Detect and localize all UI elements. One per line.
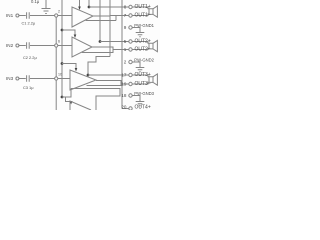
wire OUT1+	[89, 6, 129, 8]
svg-text:2: 2	[58, 10, 60, 14]
wire (U1 inverting output)	[86, 16, 116, 21]
speaker SP3	[132, 74, 157, 85]
capacitor C1	[19, 12, 55, 19]
capacitor C2	[19, 42, 55, 49]
terminal IN2	[16, 44, 19, 47]
speaker SP2	[132, 40, 157, 51]
terminal IN1	[16, 14, 19, 17]
svg-text:20: 20	[121, 104, 127, 109]
pin 20 circle (OUT4+)	[129, 107, 132, 110]
svg-text:IN2: IN2	[6, 43, 14, 48]
svg-text:IN3: IN3	[6, 76, 14, 81]
wire OUT3- (from U3 apex)	[87, 81, 129, 86]
svg-text:5: 5	[124, 39, 127, 44]
speaker SP1	[132, 6, 157, 17]
svg-text:9: 9	[124, 25, 127, 30]
svg-text:19: 19	[121, 81, 127, 86]
arrowhead into U2	[74, 35, 77, 39]
node J6	[87, 74, 90, 77]
wire (ch3 drive branch)	[62, 64, 76, 69]
pin 19 circle (OUT3-)	[129, 82, 132, 85]
svg-text:C3 1μ: C3 1μ	[23, 85, 33, 90]
wire (input pin drop line x=56)	[55, 17, 57, 110]
svg-text:OUT2+: OUT2+	[135, 39, 151, 45]
svg-text:OUT1+: OUT1+	[135, 4, 151, 10]
wire ch4 staircase	[71, 89, 120, 111]
svg-text:2: 2	[124, 59, 127, 64]
svg-text:OUT3−: OUT3−	[135, 81, 151, 87]
wire (ch2 drive branch)	[62, 30, 75, 35]
svg-text:OUT2−: OUT2−	[135, 47, 151, 53]
node J3 (bus tap ch4)	[61, 96, 64, 99]
ground G3	[132, 96, 144, 106]
bus line B4 (vertical x=122)	[121, 0, 123, 109]
svg-text:1: 1	[124, 47, 127, 52]
svg-text:PW-GND3: PW-GND3	[134, 91, 154, 96]
node J1 (bus tap ch2)	[61, 29, 64, 32]
pin 7 circle (OUT1-)	[129, 14, 132, 17]
pin 17 circle (OUT3+)	[129, 73, 132, 76]
svg-text:OUT1−: OUT1−	[135, 13, 151, 19]
svg-text:6: 6	[58, 40, 60, 44]
ground G0 (top-left bypass)	[42, 0, 51, 14]
pin 18 circle (PW-GND3)	[129, 94, 132, 97]
op-amp U2	[72, 37, 92, 57]
wire OUT2+	[100, 41, 129, 43]
svg-text:PW-GND1: PW-GND1	[134, 23, 154, 28]
pin circle (IN2 pin)	[55, 44, 58, 47]
svg-text:OUT3+: OUT3+	[135, 72, 151, 78]
pin 9 circle (PW-GND1)	[129, 26, 132, 29]
bus line B2 (vertical x=100)	[99, 0, 101, 42]
op-amp U4 (partial)	[70, 101, 91, 110]
arrowhead into U1	[78, 7, 81, 11]
svg-text:OUT4+: OUT4+	[135, 104, 151, 110]
svg-text:PW-GND2: PW-GND2	[134, 58, 154, 63]
arrowhead into U3	[75, 68, 78, 72]
svg-text:17: 17	[121, 72, 127, 77]
pin 1 circle (OUT2-)	[129, 48, 132, 51]
bus line B3 (vertical x=110)	[109, 0, 111, 57]
wire OUT2- (from U2 apex)	[82, 47, 129, 53]
pin circle (IN3 pin)	[55, 77, 58, 80]
node J5	[99, 40, 102, 43]
svg-text:18: 18	[121, 93, 127, 98]
arrowhead into U4	[70, 101, 73, 104]
pin 8 circle (OUT1+)	[129, 5, 132, 8]
pin circle (IN1 pin)	[55, 14, 58, 17]
ground G2	[132, 62, 144, 72]
wire OUT3+	[88, 74, 129, 76]
wire (ch4 drive branch)	[62, 89, 71, 102]
wire (bus to OUT1+)	[88, 0, 90, 7]
ground G1	[132, 28, 144, 37]
capacitor C3	[19, 75, 55, 82]
wire (IN1 to U1)	[58, 15, 72, 17]
wire (staircase to OUT3+)	[88, 57, 110, 76]
pin 5 circle (OUT2+)	[129, 40, 132, 43]
svg-text:8: 8	[124, 4, 127, 9]
wire OUT1- (from U1 apex)	[93, 15, 129, 18]
wire (U1 top drive)	[79, 0, 81, 7]
svg-text:10: 10	[58, 73, 62, 77]
node J2 (bus tap ch3)	[61, 62, 64, 65]
node J4	[88, 6, 91, 9]
wire (IN2 to U2)	[58, 45, 72, 47]
bus line B1 (vertical x=62)	[61, 0, 63, 97]
svg-text:7: 7	[124, 13, 127, 18]
terminal IN3	[16, 77, 19, 80]
op-amp U3	[70, 70, 96, 90]
svg-text:C2 2.2μ: C2 2.2μ	[23, 55, 37, 60]
svg-text:IN1: IN1	[6, 13, 14, 18]
wire OUT4+	[122, 108, 129, 110]
op-amp U1	[72, 7, 93, 27]
pin 2 circle (PW-GND2)	[129, 60, 132, 63]
wire (IN3 to U3)	[58, 78, 70, 80]
svg-text:0.1μ: 0.1μ	[31, 0, 40, 4]
svg-text:C1 2.2μ: C1 2.2μ	[22, 21, 36, 26]
